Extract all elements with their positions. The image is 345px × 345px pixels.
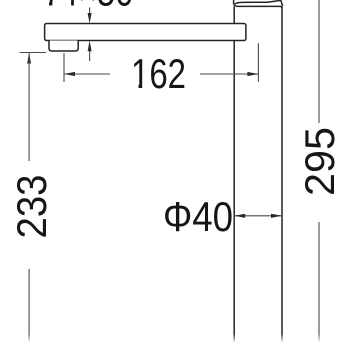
text 295 (rotated) <box>296 127 343 196</box>
extension line below aerator <box>20 52 46 54</box>
svg-text:233: 233 <box>8 175 55 239</box>
text 233 (rotated) <box>8 175 55 239</box>
spout (horizontal pipe) <box>45 24 246 41</box>
arrow right at body right edge <box>271 214 282 218</box>
dimension line 162 right segment <box>200 73 258 75</box>
extension line at body center <box>257 43 259 81</box>
dimension line 233 lower segment <box>28 269 30 345</box>
arrow right at body center <box>247 72 258 76</box>
arrow up to spout bottom <box>88 41 92 52</box>
svg-text:295: 295 <box>296 127 343 196</box>
faucet body left edge <box>233 6 235 345</box>
dimension line phi40 <box>234 215 282 217</box>
dimension 14x50 leader line upper <box>89 8 91 14</box>
faucet body right edge <box>281 6 283 345</box>
arrow left at outlet center <box>64 72 75 76</box>
svg-text:162: 162 <box>131 50 186 97</box>
handle right end face <box>281 0 283 6</box>
arrow down to spout top <box>88 13 92 24</box>
dimension line 233 upper segment <box>28 53 30 162</box>
dimension line 295 lower segment <box>318 222 320 345</box>
extension line at spout outlet center <box>63 53 65 82</box>
svg-text:Φ40: Φ40 <box>163 193 233 240</box>
faucet body top edge <box>234 4 282 8</box>
handle back edge <box>233 0 235 4</box>
arrow up at aerator bottom level <box>27 53 31 64</box>
dimension 14x50 leader line lower <box>89 51 91 61</box>
aerator nozzle under spout tip <box>49 41 78 52</box>
dimension line 162 left segment <box>64 73 110 75</box>
dimension line 295 upper segment <box>318 0 320 123</box>
handle lever (cut off at image top) <box>235 0 281 4</box>
arrow left at body left edge <box>234 214 245 218</box>
